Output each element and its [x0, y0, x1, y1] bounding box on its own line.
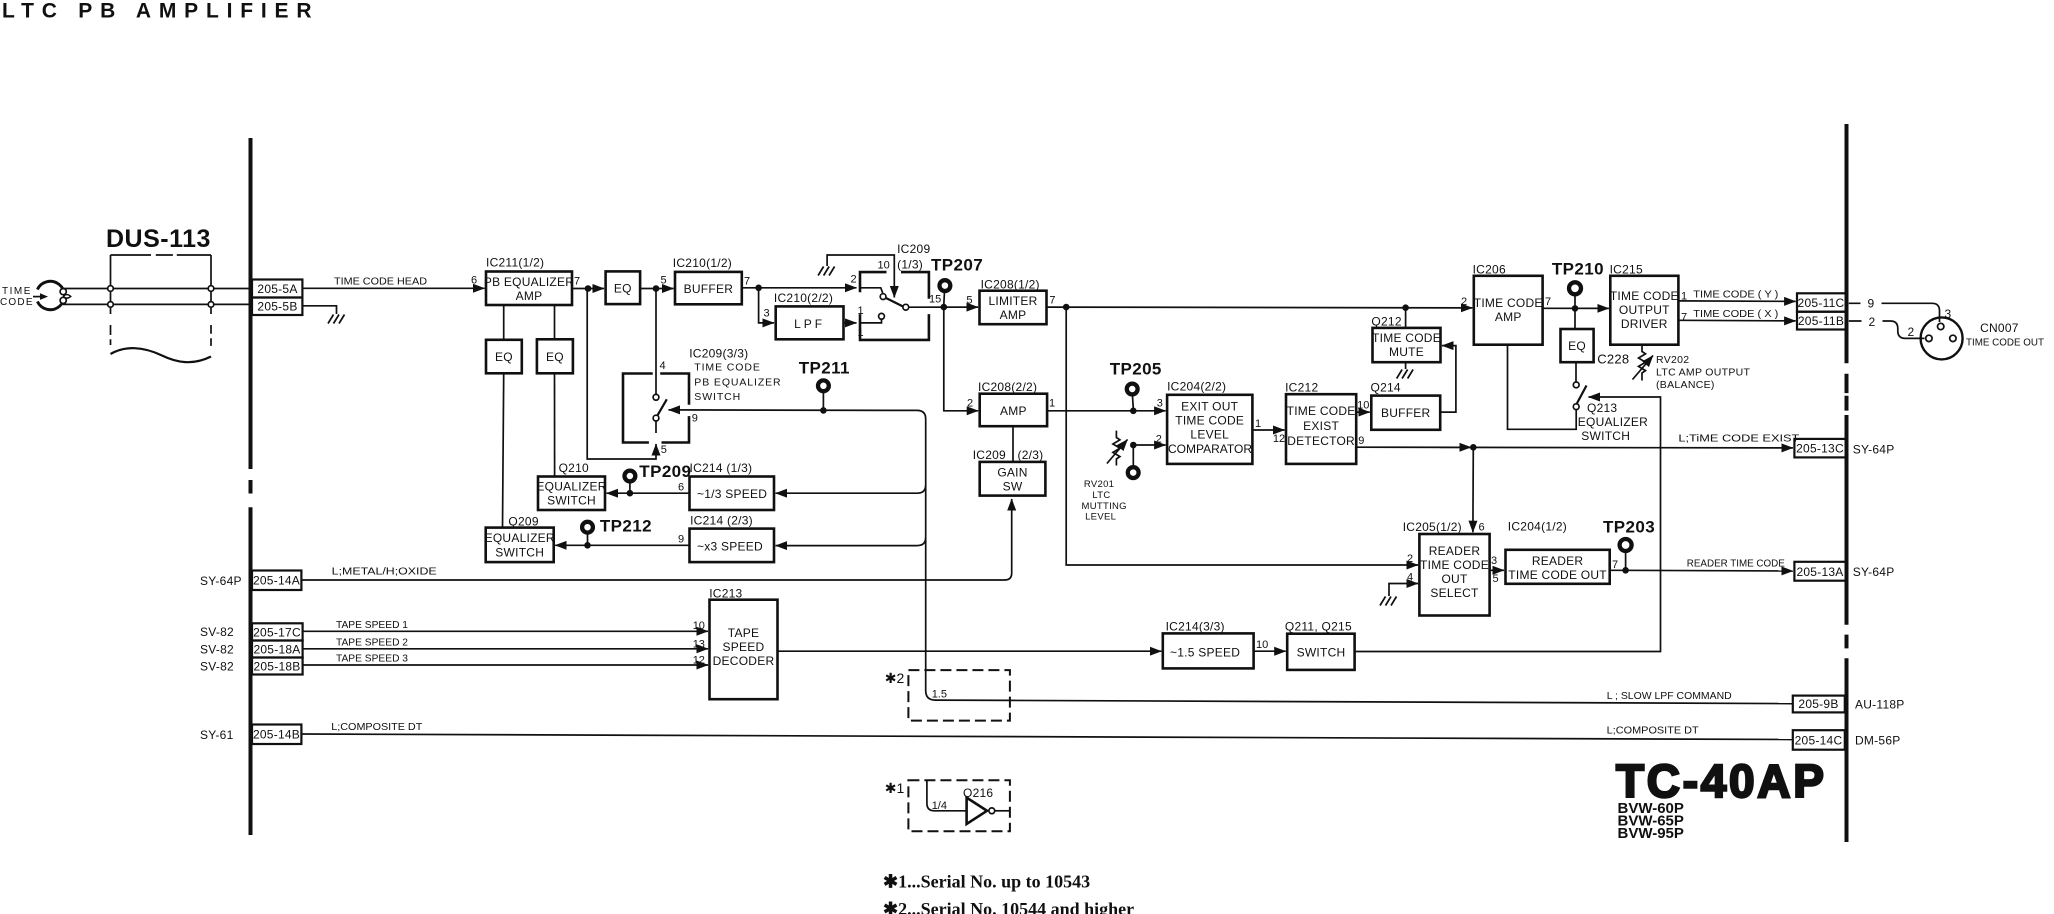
svg-text:AMP: AMP — [1495, 310, 1522, 324]
svg-text:SY-61: SY-61 — [200, 728, 234, 742]
svg-text:1: 1 — [1255, 418, 1261, 430]
potentiometer RV202 — [1633, 345, 1654, 381]
svg-text:TP207: TP207 — [931, 256, 983, 275]
svg-text:CODE: CODE — [0, 297, 34, 308]
wire time code exist out — [1356, 446, 1793, 449]
svg-text:IC208(2/2): IC208(2/2) — [978, 380, 1037, 394]
svg-text:9: 9 — [1358, 435, 1364, 447]
switch enclosure IC209(3/3) — [623, 374, 689, 443]
connector CN007 XLR TIME CODE OUT — [1921, 317, 1963, 359]
node junction after IC211 — [585, 285, 592, 292]
svg-text:DM-56P: DM-56P — [1855, 734, 1901, 748]
wire limiter out to IC206 — [1047, 306, 1473, 309]
test point TP209 — [625, 462, 692, 491]
connector 205-14B — [252, 725, 301, 745]
svg-text:TP210: TP210 — [1552, 260, 1604, 279]
svg-text:~1.5 SPEED: ~1.5 SPEED — [1170, 646, 1240, 660]
svg-text:2: 2 — [1461, 296, 1467, 308]
routing wire TP211 line down the speed feeds — [917, 410, 1010, 700]
svg-text:7: 7 — [1612, 559, 1618, 571]
svg-text:✱2...Serial No. 10544 and high: ✱2...Serial No. 10544 and higher — [883, 899, 1134, 914]
svg-text:2: 2 — [967, 398, 973, 410]
svg-text:COMPARATOR: COMPARATOR — [1168, 442, 1252, 456]
node junction after buffer — [755, 285, 762, 292]
amp IC204(1/2) READER TIME CODE OUT — [1506, 520, 1610, 584]
connector 205-18A — [252, 641, 303, 658]
svg-text:(2/3): (2/3) — [1018, 448, 1044, 462]
wire 1/3 speed to Q210 — [607, 492, 690, 494]
svg-text:DETECTOR: DETECTOR — [1287, 434, 1355, 448]
svg-text:L ; SLOW LPF COMMAND: L ; SLOW LPF COMMAND — [1607, 690, 1732, 702]
svg-text:LTC AMP OUTPUT: LTC AMP OUTPUT — [1656, 367, 1751, 379]
svg-text:SPEED: SPEED — [723, 640, 765, 654]
node TP207 junction — [941, 304, 948, 311]
svg-text:205-14A: 205-14A — [253, 574, 300, 588]
ground (Q212) — [1397, 362, 1414, 378]
wire Q212 tap stub — [1405, 308, 1407, 328]
svg-text:205-18A: 205-18A — [253, 643, 300, 657]
test point TP211 — [799, 359, 850, 409]
svg-text:15: 15 — [929, 294, 941, 306]
svg-text:205-14B: 205-14B — [253, 728, 300, 742]
svg-text:7: 7 — [1545, 296, 1551, 308]
svg-text:TAPE SPEED 2: TAPE SPEED 2 — [336, 637, 408, 649]
connector 205-18B — [252, 658, 303, 675]
wire switch common out to TP207 node — [909, 306, 978, 308]
svg-text:6: 6 — [678, 482, 684, 494]
connector 205-5B — [252, 298, 302, 316]
svg-text:TP209: TP209 — [639, 462, 691, 481]
switch IC209(1/3) contacts and blade — [860, 288, 909, 323]
wire Q213 return loop to IC206 — [1508, 345, 1577, 430]
svg-text:Q212: Q212 — [1371, 315, 1401, 329]
svg-text:EQUALIZER: EQUALIZER — [536, 480, 606, 494]
svg-text:TP211: TP211 — [799, 359, 850, 378]
svg-text:IC210(2/2): IC210(2/2) — [774, 291, 833, 305]
wire IC213 out to 1.5 speed — [778, 650, 1162, 652]
wire EQ tap 1 from IC211 — [503, 305, 505, 340]
amp IC214(1/3) 1/3 speed — [690, 461, 775, 510]
svg-text:12: 12 — [693, 655, 705, 667]
wire EQ1 down to Q209 — [503, 373, 504, 527]
svg-text:(BALANCE): (BALANCE) — [1656, 379, 1715, 391]
switch Q213 contacts and blade — [1573, 382, 1586, 410]
potentiometer RV201 — [1107, 431, 1128, 466]
test point TP210 — [1552, 260, 1604, 307]
test point TP203 — [1603, 518, 1655, 569]
svg-text:13: 13 — [693, 639, 705, 651]
svg-text:~1/3 SPEED: ~1/3 SPEED — [697, 487, 767, 501]
svg-text:SV-82: SV-82 — [200, 625, 234, 639]
wire pin4 from node after EQ — [655, 289, 657, 395]
svg-text:2: 2 — [1407, 553, 1413, 565]
wire EQ tap 2 from IC211 — [554, 305, 556, 339]
svg-text:7: 7 — [1681, 312, 1687, 324]
wire LPF out — [844, 322, 857, 324]
svg-text:SELECT: SELECT — [1430, 586, 1479, 600]
svg-text:9: 9 — [678, 534, 684, 546]
transistor Q209 EQUALIZER SWITCH — [485, 515, 555, 563]
filter EQ (tap 2) — [537, 339, 573, 373]
svg-text:CN007: CN007 — [1980, 321, 2019, 335]
svg-text:IC214 (2/3): IC214 (2/3) — [690, 514, 753, 528]
svg-text:READER: READER — [1429, 544, 1481, 558]
svg-text:PB EQUALIZER: PB EQUALIZER — [694, 377, 781, 389]
svg-text:TIME CODE: TIME CODE — [1474, 296, 1543, 310]
svg-text:IC214(3/3): IC214(3/3) — [1166, 620, 1225, 634]
svg-text:AMP: AMP — [516, 289, 543, 303]
transistor Q212 TIME CODE MUTE — [1371, 315, 1441, 363]
arrow up into switch common — [655, 444, 657, 454]
svg-text:(1/3): (1/3) — [897, 258, 923, 272]
svg-text:LPF: LPF — [794, 317, 825, 331]
svg-text:RV202: RV202 — [1656, 354, 1689, 366]
svg-text:Q213: Q213 — [1587, 401, 1617, 415]
svg-text:READER: READER — [1532, 554, 1584, 568]
svg-text:Q210: Q210 — [559, 461, 589, 475]
note *2 dashed option box — [885, 670, 1010, 721]
svg-text:L;COMPOSITE DT: L;COMPOSITE DT — [331, 721, 423, 733]
right bus line — [1845, 124, 1849, 842]
svg-text:1: 1 — [1049, 398, 1055, 410]
wire reader time code out — [1610, 569, 1793, 572]
wire 1.5 speed to switch — [1254, 650, 1286, 652]
svg-text:TIME: TIME — [2, 286, 32, 297]
svg-text:EQ: EQ — [495, 350, 513, 364]
wire XLR pin2 — [1849, 321, 1925, 338]
wire IC212 to Q214 buffer — [1356, 411, 1370, 413]
note *1 dashed option box — [885, 780, 1010, 831]
svg-text:10: 10 — [693, 620, 705, 632]
buffer IC210(1/2) — [673, 256, 742, 304]
op-amp IC211(1/2) PB EQUALIZER AMP — [484, 256, 574, 306]
svg-text:LEVEL: LEVEL — [1085, 512, 1116, 523]
wire IC206 out to IC215 — [1543, 307, 1609, 309]
svg-text:LTC PB AMPLIFIER: LTC PB AMPLIFIER — [2, 0, 319, 23]
svg-text:TP212: TP212 — [600, 517, 652, 536]
svg-text:TIME CODE HEAD: TIME CODE HEAD — [334, 276, 427, 288]
wire EQ2 down to Q210 — [554, 373, 556, 476]
svg-text:RV201: RV201 — [1084, 479, 1114, 490]
svg-text:5: 5 — [661, 444, 667, 456]
svg-text:TIME CODE: TIME CODE — [1372, 331, 1441, 345]
svg-text:3: 3 — [1157, 398, 1163, 410]
wire switch out up to Q213 blade — [1355, 397, 1661, 652]
svg-text:MUTE: MUTE — [1389, 345, 1424, 359]
svg-text:SWITCH: SWITCH — [694, 391, 741, 403]
time code head symbol — [33, 281, 71, 309]
svg-text:IC215: IC215 — [1610, 263, 1643, 277]
node TP210 junction — [1572, 305, 1579, 312]
switch IC209(3/3) contacts and blade — [653, 394, 667, 421]
svg-text:IC208(1/2): IC208(1/2) — [981, 278, 1040, 292]
svg-text:7: 7 — [744, 276, 750, 288]
svg-text:IC209(3/3): IC209(3/3) — [689, 347, 748, 361]
amp IC214(3/3) 1.5 speed — [1163, 620, 1254, 669]
wire TP211 select line into blade — [669, 409, 918, 412]
svg-text:SWITCH: SWITCH — [547, 494, 596, 508]
svg-text:C228: C228 — [1597, 352, 1629, 367]
svg-text:Q214: Q214 — [1371, 381, 1401, 395]
wire branch to 1/3 speed — [776, 485, 926, 493]
svg-text:IC210(1/2): IC210(1/2) — [673, 256, 732, 270]
connector 205-11B — [1797, 312, 1847, 330]
svg-text:TIME CODE: TIME CODE — [1610, 289, 1679, 303]
svg-text:EQUALIZER: EQUALIZER — [1578, 415, 1648, 429]
svg-text:SW: SW — [1003, 480, 1023, 494]
switch IC209(2/3) GAIN SW — [973, 448, 1046, 496]
wire buffer out — [742, 287, 857, 289]
connector 205-17C — [252, 623, 303, 640]
wire RV201 to comparator pin2 — [1133, 444, 1165, 446]
node Q212 tap — [1402, 304, 1409, 311]
svg-text:TIME CODE ( Y ): TIME CODE ( Y ) — [1693, 289, 1778, 301]
inverter Q216 — [927, 780, 1010, 824]
left bus line — [249, 138, 253, 835]
switch Q211, Q215 — [1285, 620, 1355, 670]
wire head upper to bus — [62, 288, 249, 290]
svg-text:TIME CODE OUT: TIME CODE OUT — [1508, 568, 1607, 582]
svg-text:12: 12 — [1273, 433, 1285, 445]
svg-text:3: 3 — [1491, 555, 1497, 567]
svg-text:9: 9 — [692, 413, 698, 425]
svg-text:BUFFER: BUFFER — [684, 282, 734, 296]
svg-text:4: 4 — [1407, 572, 1413, 584]
svg-text:TIME CODE OUT: TIME CODE OUT — [1966, 337, 2045, 349]
wire x3 speed to Q209 — [555, 544, 689, 546]
transistor Q210 EQUALIZER SWITCH — [536, 461, 606, 510]
wire branch to LPF — [759, 288, 774, 323]
svg-text:IC212: IC212 — [1285, 381, 1318, 395]
test point TP205 — [1110, 360, 1162, 409]
svg-text:6: 6 — [471, 275, 477, 287]
wire ground to pin 4 — [1389, 584, 1418, 597]
wire TIME CODE (X) — [1678, 319, 1795, 322]
node junction before buffer — [653, 285, 660, 292]
svg-text:TIME CODE: TIME CODE — [1287, 404, 1356, 418]
wire limiter junction down to reader select pin2 — [1066, 307, 1418, 565]
svg-text:205-11B: 205-11B — [1798, 314, 1844, 328]
svg-text:DUS-113: DUS-113 — [106, 225, 211, 253]
wire switch control from ground — [827, 255, 894, 298]
wire PB EQ AMP out — [572, 288, 604, 290]
DUS-113 dashed head housing — [111, 255, 212, 362]
wire L;COMPOSITE DT — [301, 734, 1793, 740]
svg-text:3: 3 — [764, 308, 770, 320]
connector 205-14A — [252, 571, 301, 591]
svg-text:TAPE: TAPE — [728, 626, 759, 640]
svg-text:9: 9 — [1868, 297, 1875, 311]
svg-text:L;METAL/H;OXIDE: L;METAL/H;OXIDE — [332, 566, 437, 578]
node exist junction — [1470, 444, 1477, 451]
node TP211 junction — [820, 407, 827, 414]
transistor Q214 BUFFER — [1371, 381, 1441, 430]
filter EQ (tap 1) — [486, 340, 522, 374]
svg-text:IC204(1/2): IC204(1/2) — [1508, 520, 1567, 534]
svg-text:IC204(2/2): IC204(2/2) — [1167, 380, 1226, 394]
arrow mid time code exist — [1440, 446, 1471, 448]
svg-text:LTC: LTC — [1092, 490, 1110, 501]
svg-text:TIME CODE: TIME CODE — [1420, 558, 1489, 572]
decoder IC213 TAPE SPEED DECODER — [709, 587, 777, 700]
node limiter junction — [1063, 304, 1070, 311]
wire TAPE SPEED 2 — [303, 648, 708, 650]
svg-text:✱1: ✱1 — [885, 780, 905, 796]
svg-text:5: 5 — [1493, 573, 1499, 585]
switch enclosure IC209(1/3) — [860, 272, 929, 340]
test point TP207 — [931, 256, 983, 306]
wire switch common down to return line — [587, 289, 656, 459]
svg-text:L;COMPOSITE DT: L;COMPOSITE DT — [1607, 725, 1700, 737]
filter EQ (series) — [606, 271, 641, 304]
svg-text:EQ: EQ — [1568, 339, 1586, 353]
connector 205-13C — [1794, 439, 1846, 458]
svg-text:✱2: ✱2 — [885, 670, 905, 686]
node RV201 junction — [1130, 442, 1137, 449]
filter IC210(2/2) LPF — [774, 291, 844, 339]
svg-text:LIMITER: LIMITER — [988, 294, 1037, 308]
svg-text:2: 2 — [1869, 315, 1876, 329]
svg-text:TAPE SPEED 3: TAPE SPEED 3 — [336, 653, 408, 665]
amp IC208(1/2) LIMITER AMP — [980, 278, 1047, 325]
svg-text:EXIST: EXIST — [1303, 419, 1339, 433]
node TP212 junction — [584, 542, 591, 549]
svg-text:205-11C: 205-11C — [1798, 296, 1845, 310]
wire comparator to IC212 — [1252, 429, 1284, 431]
wire EQ down to Q213 switch — [1575, 362, 1577, 382]
svg-text:AMP: AMP — [1000, 308, 1027, 322]
svg-text:AMP: AMP — [1000, 404, 1027, 418]
wire TIME CODE HEAD — [302, 287, 484, 289]
svg-text:DRIVER: DRIVER — [1621, 317, 1668, 331]
svg-text:L;TiME CODE EXIST: L;TiME CODE EXIST — [1678, 433, 1800, 445]
wire XLR pin3 — [1849, 303, 1940, 322]
wire TAPE SPEED 3 — [303, 664, 708, 666]
wire head lower to bus — [63, 303, 249, 305]
svg-text:IC206: IC206 — [1473, 263, 1506, 277]
svg-text:10: 10 — [878, 260, 890, 272]
svg-text:TAPE SPEED 1: TAPE SPEED 1 — [336, 619, 408, 631]
svg-text:2: 2 — [1156, 434, 1162, 446]
wire metal/oxide command into gain sw — [301, 499, 1012, 580]
svg-text:SWITCH: SWITCH — [1581, 429, 1630, 443]
wire select to reader out — [1490, 569, 1504, 571]
filter EQ (playback eq) — [1561, 329, 1594, 362]
svg-text:5: 5 — [966, 295, 972, 307]
svg-text:6: 6 — [1479, 522, 1485, 534]
test point TP212 — [582, 517, 652, 544]
ground (head shield) — [328, 315, 345, 324]
comparator IC204(2/2) — [1167, 380, 1252, 464]
driver IC215 TIME CODE OUTPUT DRIVER — [1610, 263, 1679, 345]
svg-text:SWITCH: SWITCH — [1297, 646, 1346, 660]
connector 205-14C — [1793, 730, 1845, 750]
svg-text:EQ: EQ — [614, 282, 632, 296]
detector IC212 TIME CODE EXIST — [1285, 381, 1356, 464]
svg-text:TP205: TP205 — [1110, 360, 1162, 379]
amp IC208(2/2) AMP — [978, 380, 1047, 426]
wire AMP out to comparator — [1047, 410, 1166, 412]
svg-text:205-13A: 205-13A — [1796, 565, 1843, 579]
svg-text:5: 5 — [661, 275, 667, 287]
svg-text:TIME CODE: TIME CODE — [694, 362, 760, 374]
svg-text:EQ: EQ — [546, 350, 564, 364]
svg-text:205-5A: 205-5A — [257, 282, 297, 296]
node TP203 junction — [1622, 567, 1629, 574]
svg-text:4: 4 — [660, 360, 666, 372]
svg-text:DECODER: DECODER — [713, 654, 775, 668]
svg-text:BUFFER: BUFFER — [1381, 406, 1431, 420]
ground (reader select) — [1380, 597, 1397, 606]
svg-text:OUTPUT: OUTPUT — [1619, 303, 1670, 317]
svg-text:SY-64P: SY-64P — [1853, 565, 1895, 579]
svg-text:IC211(1/2): IC211(1/2) — [486, 256, 544, 270]
svg-text:2: 2 — [1908, 325, 1915, 339]
svg-text:MUTTING: MUTTING — [1082, 501, 1127, 512]
svg-text:7: 7 — [1049, 295, 1055, 307]
svg-text:SV-82: SV-82 — [200, 643, 234, 657]
wire slow LPF command to 205-9B — [1010, 700, 1793, 703]
svg-text:205-13C: 205-13C — [1796, 442, 1844, 456]
svg-text:SWITCH: SWITCH — [495, 546, 544, 560]
ground (switch control) — [818, 267, 835, 276]
svg-text:EQUALIZER: EQUALIZER — [485, 531, 555, 545]
selector IC205(1/2) READER TIME CODE OUT SELECT — [1403, 520, 1490, 616]
wire TAPE SPEED 1 — [303, 630, 708, 632]
svg-text:Q211, Q215: Q211, Q215 — [1285, 620, 1352, 634]
svg-text:IC205(1/2): IC205(1/2) — [1403, 520, 1462, 534]
node circles on head housing — [108, 286, 114, 292]
svg-text:SY-64P: SY-64P — [200, 574, 242, 588]
svg-text:OUT: OUT — [1441, 572, 1468, 586]
svg-text:SY-64P: SY-64P — [1853, 443, 1895, 457]
wire Q214 up to time code mute — [1440, 346, 1456, 413]
node A vertical feed to AMP — [944, 307, 978, 411]
node TP209 junction — [627, 490, 634, 497]
svg-text:IC214 (1/3): IC214 (1/3) — [690, 461, 753, 475]
svg-text:READER TIME CODE: READER TIME CODE — [1687, 558, 1785, 570]
svg-text:PB EQUALIZER: PB EQUALIZER — [484, 275, 574, 289]
svg-text:205-9B: 205-9B — [1798, 697, 1838, 711]
svg-text:10: 10 — [1357, 400, 1369, 412]
wire AMP to gain sw stub — [1012, 426, 1014, 462]
connector 205-13A — [1794, 562, 1846, 581]
svg-text:TIME CODE ( X ): TIME CODE ( X ) — [1693, 308, 1778, 320]
wire node down to EQ — [1574, 308, 1576, 329]
svg-text:LEVEL: LEVEL — [1190, 428, 1229, 442]
svg-text:10: 10 — [1256, 639, 1268, 651]
svg-text:TP203: TP203 — [1603, 518, 1655, 537]
svg-text:GAIN: GAIN — [997, 466, 1027, 480]
svg-text:IC209: IC209 — [973, 448, 1006, 462]
svg-text:205-18B: 205-18B — [253, 660, 300, 674]
connector 205-9B — [1793, 696, 1845, 713]
amp IC214(2/3) x3 speed — [690, 514, 775, 563]
svg-text:205-5B: 205-5B — [257, 300, 297, 314]
svg-text:7: 7 — [574, 276, 580, 288]
wire exist down to reader select pin6 — [1472, 447, 1474, 532]
svg-text:✱1...Serial No. up to 10543: ✱1...Serial No. up to 10543 — [883, 872, 1090, 892]
svg-text:EXIT OUT: EXIT OUT — [1181, 400, 1239, 414]
amp IC206 TIME CODE AMP — [1473, 263, 1543, 345]
svg-text:2: 2 — [851, 274, 857, 286]
svg-text:~x3 SPEED: ~x3 SPEED — [697, 540, 763, 554]
connector 205-5A — [252, 280, 302, 298]
svg-text:1.5: 1.5 — [932, 689, 947, 701]
wire 205-5B to ground — [302, 306, 336, 314]
wire branch to x3 speed — [776, 538, 926, 546]
wire TIME CODE (Y) — [1678, 300, 1795, 303]
